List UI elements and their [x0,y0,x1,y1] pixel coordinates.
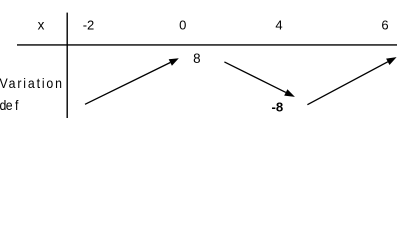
arrow increasing 2 [307,57,396,105]
svg-text:Variation: Variation [0,75,62,91]
svg-text:-8: -8 [272,100,284,115]
arrow decreasing [224,62,295,97]
svg-text:-2: -2 [83,18,95,33]
svg-text:6: 6 [381,18,388,33]
svg-text:8: 8 [193,51,200,66]
svg-text:0: 0 [179,18,186,33]
table vertical line [66,13,68,118]
svg-text:de f: de f [0,97,19,113]
svg-text:x: x [38,18,45,33]
table horizontal line [17,44,397,46]
arrow increasing 1 [85,58,179,104]
svg-text:4: 4 [275,18,282,33]
